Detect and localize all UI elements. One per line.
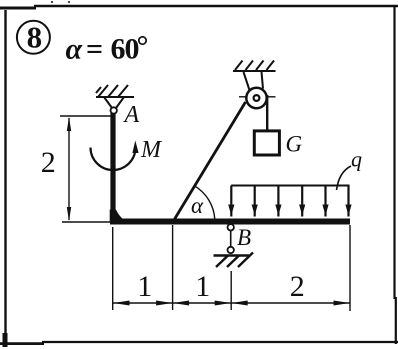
dimension extension line x=113 xyxy=(112,227,114,310)
svg-text:2: 2 xyxy=(41,146,56,179)
dimension extension line x=231 xyxy=(230,271,232,310)
label M xyxy=(140,137,163,163)
pulley wheel xyxy=(246,88,266,108)
distributed load arrows xyxy=(228,186,351,217)
label G xyxy=(286,132,303,157)
bottom dimension line xyxy=(113,302,350,304)
label alpha = 60 deg xyxy=(66,30,149,66)
distributed load top line xyxy=(231,185,349,187)
weight G box xyxy=(254,131,279,155)
label A xyxy=(123,102,140,128)
rope to weight xyxy=(266,95,268,131)
dimension 2 extension line top xyxy=(60,115,111,117)
pin support A bracket xyxy=(104,97,124,108)
fillet at bar base xyxy=(110,210,127,223)
label 2 third span xyxy=(290,270,305,303)
pulley support hatching xyxy=(233,61,276,72)
support B link xyxy=(230,231,232,247)
label alpha small xyxy=(191,193,204,218)
dimension extension line x=350 xyxy=(349,225,351,311)
label 2 left xyxy=(41,146,56,179)
frame border right xyxy=(395,5,396,344)
support B lower circle xyxy=(228,247,234,253)
pulley axle ticks xyxy=(239,96,276,98)
diagonal rod xyxy=(173,102,246,222)
support B upper circle xyxy=(228,224,234,230)
vertical bar xyxy=(110,113,115,222)
svg-text:8: 8 xyxy=(27,20,42,55)
pin A circle xyxy=(111,107,117,113)
svg-text:α: α xyxy=(191,193,204,218)
pin support A hatching xyxy=(96,85,134,97)
frame border top xyxy=(0,1,398,8)
dimension extension line x=172.6 xyxy=(172,225,174,310)
svg-text:G: G xyxy=(286,132,303,157)
frame border bottom xyxy=(0,342,398,344)
svg-text:2: 2 xyxy=(290,270,305,303)
moment M arc xyxy=(91,141,139,171)
frame border left xyxy=(4,10,7,347)
dimension 2 line with arrows xyxy=(67,117,71,221)
svg-text:M: M xyxy=(140,137,163,163)
main beam xyxy=(110,219,350,225)
pulley bracket xyxy=(244,72,264,90)
label B xyxy=(237,225,251,250)
support B ground line xyxy=(214,254,250,256)
problem number circle 8 xyxy=(17,20,50,55)
svg-text:A: A xyxy=(123,102,140,128)
dimension arrows row xyxy=(113,301,350,306)
label 1 second span xyxy=(195,270,210,303)
svg-text:1: 1 xyxy=(195,270,210,303)
angle alpha arc xyxy=(195,186,215,220)
beam thin left extension xyxy=(62,221,110,223)
svg-text:q: q xyxy=(351,147,362,172)
label 1 first span xyxy=(137,270,152,303)
support B hatching xyxy=(216,253,253,268)
svg-text:B: B xyxy=(237,225,251,250)
label q with leader xyxy=(337,147,363,191)
svg-text:1: 1 xyxy=(137,270,152,303)
